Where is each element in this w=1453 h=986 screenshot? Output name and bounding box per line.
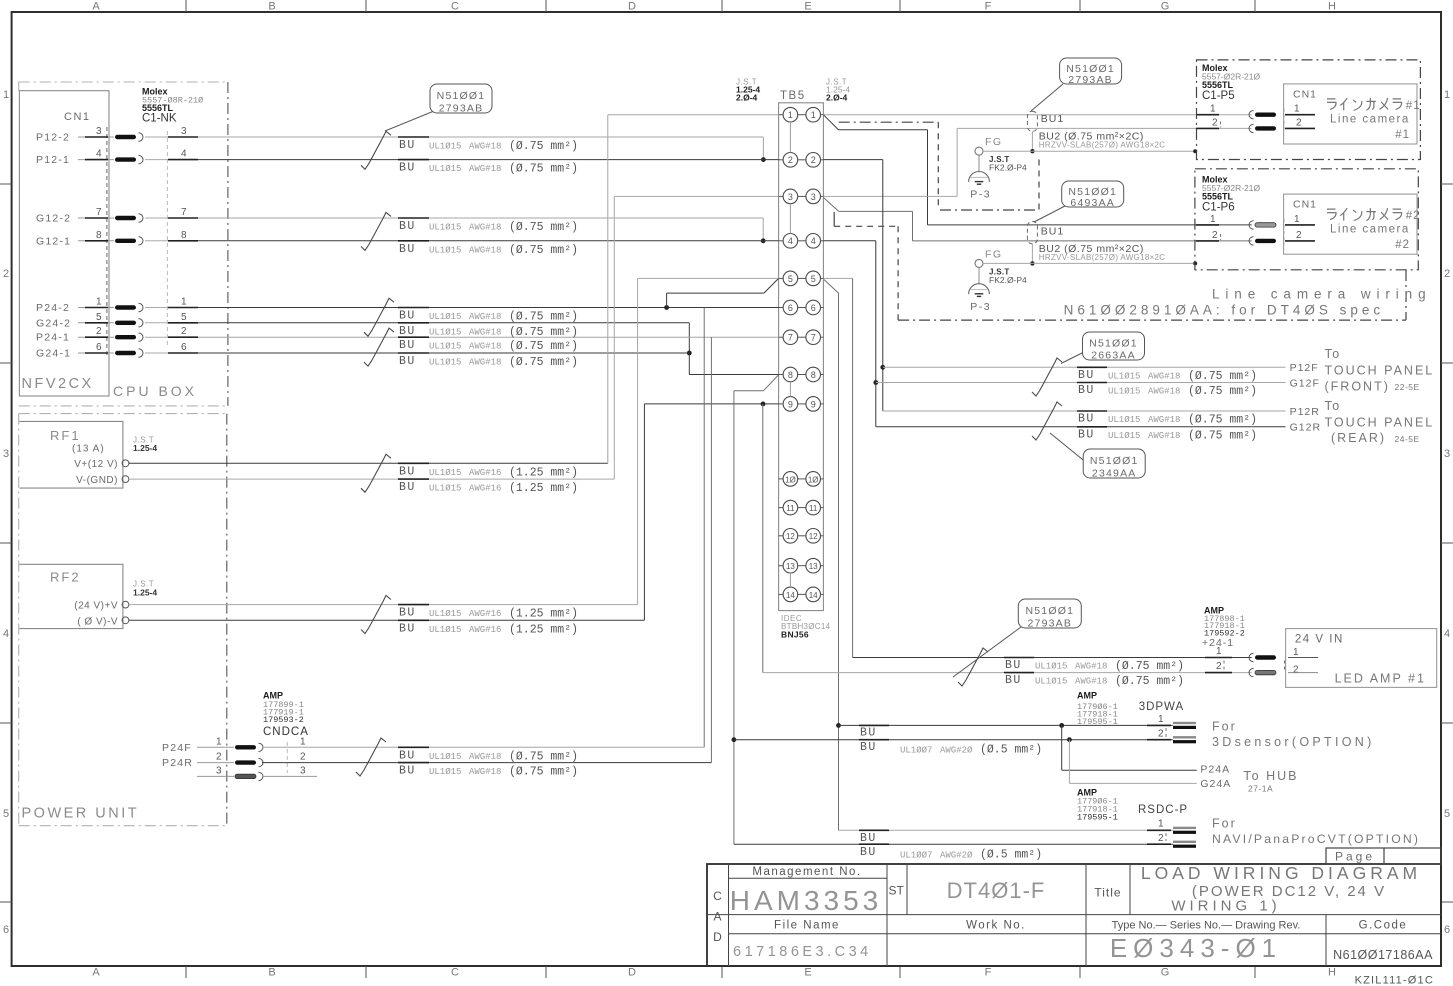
svg-text:(Ø.75 mm²): (Ø.75 mm²) (509, 140, 578, 153)
svg-text:1Ø: 1Ø (808, 475, 819, 484)
svg-text:4: 4 (96, 149, 102, 160)
svg-text:AWG#18: AWG#18 (1075, 677, 1107, 687)
svg-text:AMP: AMP (1077, 691, 1097, 701)
svg-text:UL1Ø15: UL1Ø15 (1035, 677, 1067, 687)
svg-text:HRZVV-SLAB(257Ø) AWG18×2C: HRZVV-SLAB(257Ø) AWG18×2C (1039, 140, 1166, 149)
svg-text:CN1: CN1 (64, 111, 91, 123)
svg-text:8: 8 (811, 370, 816, 380)
svg-text:24 V IN: 24 V IN (1295, 633, 1344, 645)
RF2 relay/fuse box (19, 564, 123, 628)
svg-text:4: 4 (811, 236, 816, 246)
wire RF1 V- run to T3 (129, 478, 614, 480)
svg-text:2: 2 (1444, 268, 1450, 280)
svg-text:BNJ56: BNJ56 (781, 630, 809, 640)
svg-text:G12-1: G12-1 (36, 235, 71, 247)
svg-text:1: 1 (300, 736, 306, 747)
svg-text:UL1Ø15: UL1Ø15 (429, 609, 461, 619)
svg-text:A: A (713, 910, 721, 924)
svg-text:TB5: TB5 (780, 90, 806, 102)
svg-text:AWG#16: AWG#16 (469, 609, 501, 619)
svg-text:2793AB: 2793AB (1068, 74, 1113, 86)
camera 2 mating line 2 (1283, 219, 1285, 245)
svg-text:P12-2: P12-2 (36, 132, 70, 144)
svg-text:AWG#18: AWG#18 (1148, 431, 1180, 441)
TB5 terminal 7 (779, 336, 784, 338)
svg-text:617186E3.C34: 617186E3.C34 (733, 944, 872, 960)
wire T2 to touch panels (823, 159, 882, 161)
svg-text:P24-2: P24-2 (36, 302, 70, 314)
camera 1 mating line 2 (1283, 109, 1285, 133)
svg-text:E: E (804, 967, 811, 979)
svg-text:1.25-4: 1.25-4 (133, 588, 157, 598)
svg-text:2663AA: 2663AA (1091, 350, 1136, 362)
wire branch P24-2 to T5 (666, 293, 668, 307)
svg-text:N51ØØ1: N51ØØ1 (437, 90, 486, 102)
wire RF2 -V riser to T9 (643, 404, 645, 620)
wire 3Dsensor pin1 (839, 724, 1173, 726)
wire label BU UL1015 AWG#18 y=218.0 (398, 217, 429, 219)
TB5 terminal 1 (779, 114, 784, 116)
wire T9 to LED AMP pin2 (762, 404, 764, 673)
wire G24-2 run (198, 322, 689, 324)
svg-text:BU: BU (1078, 428, 1095, 441)
svg-text:Type No.— Series No.— Drawing: Type No.— Series No.— Drawing Rev. (1112, 920, 1301, 932)
svg-text:9: 9 (811, 399, 816, 409)
svg-text:P24A: P24A (1200, 764, 1230, 776)
svg-text:BU: BU (1078, 369, 1095, 382)
camera 1 cable bundle marker BU2 (1027, 111, 1037, 131)
svg-text:8: 8 (181, 230, 187, 241)
svg-text:AWG#18: AWG#18 (469, 245, 501, 255)
svg-text:(Ø.75 mm²): (Ø.75 mm²) (509, 340, 578, 353)
svg-text:BU: BU (399, 607, 416, 620)
wire label BU UL1015 AWG#18 y=240.8 (398, 240, 429, 242)
svg-text:C1-P5: C1-P5 (1202, 90, 1235, 102)
wire G12F (876, 382, 1286, 384)
wire RSDC pin1 (839, 829, 1174, 831)
camera 1 enclosure (dash-dot) (1197, 60, 1421, 160)
svg-text:#2: #2 (1395, 239, 1410, 251)
svg-text:BU: BU (399, 243, 416, 256)
svg-text:P24F: P24F (162, 742, 192, 754)
camera 1 mating line (1220, 121, 1222, 127)
svg-text:5: 5 (788, 274, 793, 284)
camera 2 cable bundle marker BU2 (1027, 221, 1037, 244)
svg-text:P24R: P24R (162, 757, 193, 769)
svg-text:B: B (268, 1, 275, 13)
svg-text:BU: BU (399, 355, 416, 368)
svg-text:UL1Ø15: UL1Ø15 (429, 142, 461, 152)
svg-text:TOUCH PANEL: TOUCH PANEL (1325, 364, 1435, 378)
svg-text:(Ø.75 mm²): (Ø.75 mm²) (1188, 370, 1257, 383)
svg-text:Management No.: Management No. (752, 866, 861, 878)
camera 2 earth symbol P-3 (978, 267, 980, 284)
svg-text:Line camera: Line camera (1330, 113, 1410, 125)
callout balloon N51001 6493AA camera2 (1034, 206, 1065, 222)
svg-text:AWG#18: AWG#18 (1148, 387, 1180, 397)
svg-text:BU: BU (399, 162, 416, 175)
svg-text:ST: ST (889, 884, 905, 898)
cable slash P24 lower (364, 328, 394, 366)
wire T1 branch to line camera 2 pin1 (824, 115, 839, 130)
svg-text:#1: #1 (1406, 100, 1421, 112)
svg-text:HAM3353: HAM3353 (730, 885, 883, 916)
svg-text:G.Code: G.Code (1359, 920, 1408, 932)
junction G12F (873, 380, 878, 385)
svg-text:POWER UNIT: POWER UNIT (22, 806, 140, 822)
svg-text:For: For (1212, 817, 1237, 831)
svg-text:3: 3 (788, 192, 793, 202)
svg-text:HRZVV-SLAB(257Ø) AWG18×2C: HRZVV-SLAB(257Ø) AWG18×2C (1039, 253, 1166, 262)
svg-text:RF2: RF2 (50, 570, 81, 585)
svg-text:BU: BU (1005, 659, 1022, 672)
svg-text:V+(12 V): V+(12 V) (74, 459, 118, 470)
svg-text:Work No.: Work No. (966, 920, 1026, 932)
svg-text:(Ø.75 mm²): (Ø.75 mm²) (509, 311, 578, 324)
svg-text:AWG#16: AWG#16 (469, 625, 501, 635)
svg-text:AWG#18: AWG#18 (469, 358, 501, 368)
svg-text:To HUB: To HUB (1243, 769, 1298, 783)
svg-text:6: 6 (3, 924, 9, 936)
line camera 2 pin 1 (1196, 224, 1219, 226)
svg-text:4: 4 (3, 628, 9, 640)
svg-text:7: 7 (181, 207, 187, 218)
svg-text:(Ø.75 mm²): (Ø.75 mm²) (509, 163, 578, 176)
svg-text:179595-1: 179595-1 (1077, 813, 1118, 823)
svg-text:FG: FG (985, 248, 1003, 260)
TB5 terminal 8 (779, 374, 784, 376)
svg-text:6: 6 (1444, 924, 1450, 936)
svg-text:5: 5 (181, 312, 187, 323)
svg-text:AWG#18: AWG#18 (469, 752, 501, 762)
svg-text:BU: BU (860, 832, 877, 845)
svg-text:3: 3 (96, 126, 102, 137)
svg-text:C: C (451, 1, 459, 13)
line camera 2 box (1284, 194, 1417, 254)
svg-text:UL1Ø15: UL1Ø15 (429, 223, 461, 233)
TB5 terminal 5 (779, 277, 784, 279)
svg-text:Page: Page (1335, 850, 1375, 864)
svg-text:2: 2 (1293, 664, 1299, 675)
svg-text:2: 2 (1158, 728, 1164, 739)
svg-text:D: D (628, 967, 636, 979)
wire label BU LED y=672.6 (1004, 672, 1034, 674)
junction G12 pair at T4 (761, 238, 766, 243)
svg-text:1.25-4: 1.25-4 (133, 443, 157, 453)
svg-text:G24-2: G24-2 (36, 317, 71, 329)
RF1 V+ terminal circle (122, 460, 129, 467)
svg-text:LOAD WIRING DIAGRAM: LOAD WIRING DIAGRAM (1141, 863, 1421, 883)
wire P24-1 run to T7 (198, 336, 779, 338)
wire RF1 V+ run to T1 (129, 462, 608, 464)
svg-text:13: 13 (809, 562, 818, 571)
wire into T5 (638, 277, 779, 279)
wire label BU UL1015 AWG#16 y=620.3 (398, 619, 429, 621)
CNDCA pin3 stub wire (262, 775, 317, 777)
svg-text:AWG#18: AWG#18 (1148, 371, 1180, 381)
camera 1 shield drain (1031, 131, 1033, 151)
wire P12-1 run to TB5 T2 (198, 159, 779, 161)
3Dsensor pin 2 (1147, 739, 1171, 741)
svg-text:2793AB: 2793AB (439, 102, 484, 114)
svg-text:3DPWA: 3DPWA (1139, 701, 1184, 713)
CPU BOX enclosure (dash-dot) (19, 81, 228, 83)
cable slash CNDCA (356, 738, 386, 776)
svg-text:6: 6 (788, 303, 793, 313)
svg-text:FG: FG (985, 136, 1003, 148)
wire diagonal into T5 (764, 278, 779, 293)
TB5 terminal 4 (779, 240, 784, 242)
svg-text:3: 3 (3, 448, 9, 460)
svg-text:Title: Title (1094, 886, 1121, 900)
wire label BU LED y=657.5 (1004, 657, 1034, 659)
DT40S spec boundary segments (839, 121, 939, 123)
svg-text:CN1: CN1 (1293, 88, 1317, 100)
CN1 connector boundary (dashed) (106, 127, 108, 355)
svg-text:5: 5 (96, 312, 102, 323)
LED AMP pin 2 (1205, 672, 1232, 674)
svg-text:(Ø.5 mm²): (Ø.5 mm²) (980, 744, 1042, 757)
wire P12F (883, 366, 1286, 368)
svg-text:13: 13 (786, 562, 795, 571)
svg-text:BU: BU (1078, 384, 1095, 397)
svg-text:N51ØØ1: N51ØØ1 (1090, 455, 1139, 467)
svg-text:V-(GND): V-(GND) (76, 475, 118, 486)
svg-text:2: 2 (1212, 117, 1218, 128)
svg-text:179595-1: 179595-1 (1077, 717, 1118, 727)
wire T8 branch to 3Dsensor pin2 and RSDC pin2 (764, 375, 779, 391)
svg-text:3: 3 (216, 765, 222, 776)
svg-text:BU: BU (860, 727, 877, 740)
svg-text:2: 2 (96, 326, 102, 337)
svg-text:(Ø.75 mm²): (Ø.75 mm²) (509, 326, 578, 339)
svg-text:4: 4 (1444, 628, 1450, 640)
svg-text:2: 2 (3, 268, 9, 280)
line camera 1 pin 1 (1196, 114, 1219, 116)
svg-text:6: 6 (181, 342, 187, 353)
svg-text:4: 4 (788, 236, 793, 246)
TB5 terminal 2 (779, 159, 784, 161)
svg-text:N61ØØ17186AA: N61ØØ17186AA (1333, 948, 1433, 962)
svg-text:1: 1 (788, 110, 793, 120)
wire label BU UL1015 AWG#16 y=463.3 (398, 462, 429, 464)
svg-text:UL1Ø15: UL1Ø15 (429, 245, 461, 255)
svg-text:FK2.Ø-P4: FK2.Ø-P4 (989, 275, 1027, 285)
svg-text:F: F (985, 1, 992, 13)
camera 2 enclosure (dash-dot) (1195, 169, 1418, 270)
svg-text:To: To (1325, 347, 1341, 361)
wire label BU UL1015 AWG#16 y=604.6 (398, 604, 429, 606)
svg-text:(Ø.75 mm²): (Ø.75 mm²) (1115, 675, 1184, 688)
svg-text:8: 8 (788, 370, 793, 380)
svg-text:A: A (92, 1, 100, 13)
wire CNDCA P24F riser to T6 (262, 746, 704, 748)
wire label BU touch y=426.8 (1077, 426, 1107, 428)
cable slash RF1 (361, 454, 391, 492)
wire RF2 +V run to T5 (129, 604, 638, 606)
camera 1 earth symbol P-3 (978, 155, 980, 172)
svg-text:(1.25 mm²): (1.25 mm²) (509, 608, 578, 621)
junction 3Dsensor pin1 (836, 723, 841, 728)
callout balloon N51001 2793AB top-left (385, 111, 434, 131)
svg-text:(Ø.75 mm²): (Ø.75 mm²) (509, 356, 578, 369)
svg-text:(Ø.75 mm²): (Ø.75 mm²) (1188, 429, 1257, 442)
svg-text:UL1Ø15: UL1Ø15 (429, 468, 461, 478)
svg-text:2: 2 (1212, 230, 1218, 241)
wire P12-2 drop to T2 (762, 137, 764, 160)
wire P12R (883, 410, 1286, 412)
svg-text:UL1Ø15: UL1Ø15 (429, 164, 461, 174)
svg-text:UL1Ø15: UL1Ø15 (1108, 415, 1140, 425)
svg-text:UL1Ø15: UL1Ø15 (1108, 431, 1140, 441)
svg-text:G12R: G12R (1290, 422, 1321, 434)
svg-text:2349AA: 2349AA (1092, 467, 1137, 479)
svg-text:For: For (1212, 720, 1237, 734)
svg-text:BU: BU (860, 741, 877, 754)
TB5 internal link 3-4 (789, 204, 791, 234)
svg-text:1: 1 (3, 89, 9, 101)
svg-text:2: 2 (1158, 833, 1164, 844)
svg-text:(Ø.75 mm²): (Ø.75 mm²) (1188, 414, 1257, 427)
wire G24 into T8 (689, 374, 778, 376)
cable slash P12 (361, 131, 391, 169)
callout balloon N51001 2793AB LED (953, 627, 1021, 677)
junction T9 to LED AMP pin2 (761, 402, 766, 407)
svg-text:1: 1 (216, 736, 222, 747)
svg-text:2: 2 (1296, 117, 1302, 128)
svg-text:7: 7 (811, 333, 816, 343)
svg-text:1: 1 (1294, 104, 1300, 115)
TB5 terminal 12 (779, 535, 784, 537)
svg-text:2: 2 (300, 752, 306, 763)
svg-text:N61ØØ2891ØAA: for DT4ØS spec: N61ØØ2891ØAA: for DT4ØS spec (1064, 303, 1385, 318)
TB5 internal link 8-9 (789, 382, 791, 397)
svg-text:BU1: BU1 (1041, 113, 1064, 125)
svg-text:N51ØØ1: N51ØØ1 (1025, 605, 1074, 617)
wire RF2 -V run to T9 (129, 619, 644, 621)
svg-text:AWG#18: AWG#18 (469, 142, 501, 152)
svg-text:G24-1: G24-1 (36, 348, 71, 360)
svg-text:11: 11 (786, 504, 795, 513)
wire label BU UL1015 AWG#18 y=307.5 (398, 307, 429, 309)
wire label BU UL1015 AWG#18 y=137.0 (398, 136, 429, 138)
svg-text:UL1ØØ7: UL1ØØ7 (900, 850, 932, 860)
svg-text:UL1Ø15: UL1Ø15 (429, 358, 461, 368)
RF2 -V terminal circle (122, 617, 129, 624)
svg-text:24-5E: 24-5E (1395, 434, 1420, 444)
svg-text:(Ø.75 mm²): (Ø.75 mm²) (509, 244, 578, 257)
svg-text:B: B (268, 967, 275, 979)
svg-text:2: 2 (181, 326, 187, 337)
line camera 1 box (1284, 84, 1417, 144)
POWER UNIT enclosure (dash-dot) (19, 413, 227, 415)
svg-text:AWG#18: AWG#18 (469, 312, 501, 322)
callout balloon N51001 2349AA (1050, 433, 1085, 462)
svg-text:8: 8 (96, 230, 102, 241)
svg-text:D: D (628, 1, 636, 13)
junction P12F (880, 365, 885, 370)
svg-text:11: 11 (809, 504, 818, 513)
svg-text:1: 1 (96, 297, 102, 308)
svg-text:2: 2 (788, 155, 793, 165)
camera 2 shield drain (1031, 244, 1033, 264)
wire label BU touch y=367.3 (1077, 366, 1107, 368)
3Dsensor pin 1 (1147, 724, 1171, 726)
svg-text:5: 5 (1444, 808, 1450, 820)
svg-text:(24 V)+V: (24 V)+V (74, 601, 118, 612)
svg-text:F: F (985, 967, 992, 979)
TB5 terminal 9 (779, 403, 784, 405)
svg-text:5556TL: 5556TL (142, 103, 174, 113)
svg-text:C: C (451, 967, 459, 979)
svg-text:UL1ØØ7: UL1ØØ7 (900, 746, 932, 756)
RF2 +V terminal circle (122, 601, 129, 608)
wire G12-2 run (198, 217, 763, 219)
svg-text:BU: BU (399, 310, 416, 323)
svg-text:AWG#18: AWG#18 (1075, 662, 1107, 672)
svg-text:H: H (1328, 967, 1336, 979)
wire G12-1 run to T4 (198, 240, 779, 242)
svg-text:BU: BU (399, 481, 416, 494)
svg-text:NAVI/PanaProCVT(OPTION): NAVI/PanaProCVT(OPTION) (1212, 832, 1420, 846)
svg-text:G12F: G12F (1290, 378, 1320, 390)
svg-text:UL1Ø15: UL1Ø15 (1035, 662, 1067, 672)
svg-text:12: 12 (786, 532, 795, 541)
TB5 internal link 13-14 (789, 573, 791, 587)
wire into T3 (614, 195, 778, 197)
svg-text:(REAR): (REAR) (1331, 431, 1386, 445)
svg-text:2: 2 (1296, 230, 1302, 241)
svg-text:BU: BU (399, 325, 416, 338)
svg-text:1: 1 (181, 297, 187, 308)
svg-text:3: 3 (811, 192, 816, 202)
wire P24-2 run to T6 (198, 307, 779, 309)
svg-text:CN1: CN1 (1293, 199, 1317, 211)
wire into T1 (608, 114, 779, 116)
TB5 terminal 6 (779, 307, 784, 309)
wire label BU UL1015 AWG#16 y=479.1 (398, 478, 429, 480)
svg-text:UL1Ø15: UL1Ø15 (429, 752, 461, 762)
svg-text:G24A: G24A (1200, 778, 1231, 790)
wire RSDC pin2 (734, 843, 1173, 845)
svg-text:5: 5 (811, 274, 816, 284)
wire label BU touch y=382.5 (1077, 382, 1107, 384)
svg-text:2793AB: 2793AB (1028, 617, 1073, 629)
svg-text:E: E (804, 1, 811, 13)
wire CNDCA P24R riser to T7 (262, 762, 711, 764)
svg-text:(1.25 mm²): (1.25 mm²) (509, 623, 578, 636)
svg-text:2: 2 (1216, 661, 1222, 672)
CNDCA pin 3 (197, 775, 234, 777)
svg-text:AWG#18: AWG#18 (469, 164, 501, 174)
wire 3Dsensor pin2 (734, 739, 1173, 741)
title block (707, 864, 1441, 966)
svg-text:BU: BU (399, 220, 416, 233)
wire label BU UL1015 AWG#18 y=159.6 (398, 159, 429, 161)
junction P12 pair at T2 (761, 157, 766, 162)
cable slash P24 upper (364, 298, 394, 336)
svg-text:WIRING 1): WIRING 1) (1171, 898, 1280, 915)
svg-text:2.Ø-4: 2.Ø-4 (826, 93, 848, 103)
svg-text:AWG#2Ø: AWG#2Ø (940, 850, 973, 860)
svg-text:(Ø.75 mm²): (Ø.75 mm²) (509, 766, 578, 779)
svg-text:C1-P6: C1-P6 (1202, 202, 1235, 214)
cable slash G12 (361, 212, 391, 250)
TB5 internal link 1-2 (789, 122, 791, 153)
wire label BU UL1015 AWG#18 y=762.6 (398, 762, 429, 764)
wire label BU UL1015 AWG#18 y=337.2 (398, 336, 429, 338)
svg-text:#1: #1 (1395, 129, 1410, 141)
